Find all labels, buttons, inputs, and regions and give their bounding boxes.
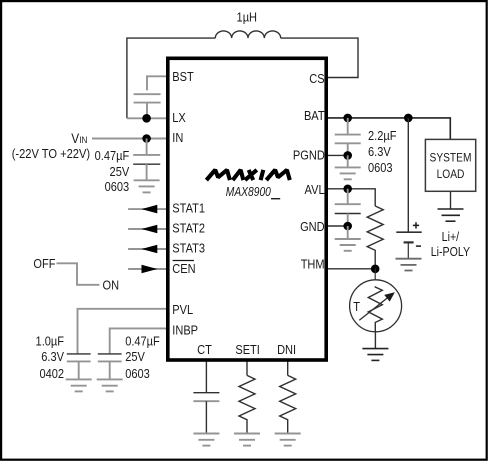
capacitor C_CT bbox=[193, 393, 219, 434]
resistor R_SETI bbox=[239, 375, 255, 433]
svg-text:INBP: INBP bbox=[172, 323, 198, 338]
battery plus sign bbox=[413, 222, 419, 228]
wire VIN to IN pin bbox=[92, 138, 168, 140]
wire CEN bbox=[128, 268, 168, 270]
ground CT bbox=[193, 434, 219, 446]
junction dot THM bbox=[371, 265, 380, 274]
svg-text:STAT2: STAT2 bbox=[172, 220, 205, 235]
thermistor arrow head bbox=[384, 292, 395, 301]
junction dot BAT/C bbox=[343, 114, 352, 123]
svg-text:25V: 25V bbox=[125, 349, 145, 364]
arrow STAT1 bbox=[142, 205, 158, 214]
svg-text:1.0µF: 1.0µF bbox=[36, 334, 64, 349]
IC U1 MAX8900 body bbox=[168, 58, 326, 360]
ground thermistor bbox=[362, 349, 388, 361]
svg-text:SETI: SETI bbox=[235, 342, 260, 357]
svg-text:0603: 0603 bbox=[125, 366, 150, 381]
ground PGND bbox=[335, 155, 361, 179]
svg-text:Li+/: Li+/ bbox=[442, 230, 460, 244]
ground IN cap bbox=[134, 180, 160, 192]
battery Li+ cell bbox=[396, 232, 421, 259]
wire CT bbox=[205, 360, 207, 393]
svg-text:GND: GND bbox=[300, 219, 325, 234]
capacitor C_BAT 2.2uF bbox=[335, 118, 361, 155]
junction dot GND bbox=[343, 222, 352, 231]
box SYSTEM LOAD bbox=[425, 139, 475, 191]
thermistor RT bbox=[350, 269, 402, 332]
svg-text:PGND: PGND bbox=[293, 148, 325, 163]
ground C_PVL bbox=[66, 379, 92, 391]
arrow STAT2 bbox=[142, 225, 158, 234]
svg-text:BAT: BAT bbox=[304, 108, 325, 123]
svg-text:1µH: 1µH bbox=[237, 10, 257, 25]
svg-text:LX: LX bbox=[172, 110, 186, 125]
ground C_INBP bbox=[97, 379, 123, 391]
wire DNI bbox=[287, 360, 289, 375]
wire battery lead bbox=[407, 118, 409, 232]
svg-text:0.47µF: 0.47µF bbox=[125, 334, 160, 349]
svg-text:DNI: DNI bbox=[277, 342, 296, 357]
svg-text:CT: CT bbox=[197, 342, 212, 357]
svg-text:0603: 0603 bbox=[105, 179, 130, 194]
wire STAT3 bbox=[128, 248, 168, 250]
wire STAT1 bbox=[128, 208, 168, 210]
svg-text:T: T bbox=[353, 299, 360, 314]
svg-text:CS: CS bbox=[309, 71, 324, 86]
ground system load bbox=[438, 209, 464, 221]
svg-text:6.3V: 6.3V bbox=[368, 144, 391, 159]
wire BST pin to capacitor bbox=[147, 76, 168, 90]
capacitor C_PVL 1.0uF bbox=[67, 354, 91, 380]
resistor R_AVL bbox=[367, 206, 383, 269]
svg-text:BST: BST bbox=[172, 69, 194, 84]
wire AVL bbox=[326, 189, 375, 206]
svg-text:0402: 0402 bbox=[39, 366, 64, 381]
ground battery bbox=[396, 259, 422, 271]
wire LX loop to inductor bbox=[127, 38, 215, 118]
wire GND bbox=[326, 225, 348, 227]
svg-text:STAT1: STAT1 bbox=[172, 201, 205, 216]
wire system load to ground bbox=[450, 191, 452, 209]
wire OFF/ON step bbox=[57, 263, 100, 285]
svg-text:AVL: AVL bbox=[305, 182, 325, 197]
wire PGND bbox=[326, 154, 348, 156]
wire thermistor to ground bbox=[374, 332, 376, 349]
wire INBP bbox=[110, 328, 168, 354]
svg-text:6.3V: 6.3V bbox=[41, 349, 64, 364]
battery minus sign bbox=[416, 245, 421, 247]
ground DNI bbox=[275, 434, 301, 446]
MAXIM logo bbox=[206, 170, 289, 180]
resistor R_DNI bbox=[280, 375, 296, 433]
ground SETI bbox=[234, 434, 260, 446]
svg-text:LOAD: LOAD bbox=[437, 168, 465, 181]
junction dot IN bbox=[142, 134, 151, 143]
svg-text:THM: THM bbox=[301, 257, 325, 272]
capacitor C_BST bbox=[134, 94, 161, 118]
arrow CEN bbox=[142, 265, 158, 274]
svg-text:SYSTEM: SYSTEM bbox=[430, 152, 472, 165]
wire PVL bbox=[78, 309, 169, 354]
inductor L1 1uH bbox=[215, 31, 280, 38]
svg-text:CEN: CEN bbox=[172, 261, 195, 276]
wire LX bbox=[127, 117, 168, 119]
svg-text:(-22V TO +22V): (-22V TO +22V) bbox=[12, 146, 90, 161]
svg-text:OFF: OFF bbox=[33, 256, 55, 271]
arrow STAT3 bbox=[142, 245, 158, 254]
junction dot BAT/battery bbox=[404, 114, 413, 123]
junction dot LX/BST cap bbox=[142, 114, 151, 123]
wire SETI bbox=[246, 360, 248, 375]
svg-text:Li-POLY: Li-POLY bbox=[431, 245, 471, 259]
svg-text:2.2µF: 2.2µF bbox=[368, 128, 396, 143]
wire THM bbox=[326, 268, 375, 270]
svg-text:PVL: PVL bbox=[172, 302, 193, 317]
junction dot PGND bbox=[343, 151, 352, 160]
svg-text:ON: ON bbox=[103, 278, 120, 293]
svg-text:IN: IN bbox=[79, 135, 87, 146]
ground GND bbox=[335, 226, 361, 251]
junction dot AVL bbox=[343, 185, 352, 194]
wire BAT net bbox=[326, 118, 450, 139]
capacitor C_IN 0.47uF bbox=[133, 139, 160, 181]
svg-text:STAT3: STAT3 bbox=[172, 240, 205, 255]
underscore of MAX8900_ bbox=[271, 198, 280, 200]
svg-text:0603: 0603 bbox=[368, 160, 393, 175]
wire STAT2 bbox=[128, 228, 168, 230]
svg-text:IN: IN bbox=[172, 130, 183, 145]
svg-text:V: V bbox=[71, 130, 79, 146]
svg-text:25V: 25V bbox=[110, 164, 130, 179]
svg-text:0.47µF: 0.47µF bbox=[95, 148, 130, 163]
svg-text:MAX8900: MAX8900 bbox=[226, 185, 271, 199]
capacitor C_AVL bbox=[335, 189, 361, 226]
capacitor C_INBP 0.47uF bbox=[98, 354, 122, 380]
wire inductor to CS pin bbox=[281, 38, 358, 77]
